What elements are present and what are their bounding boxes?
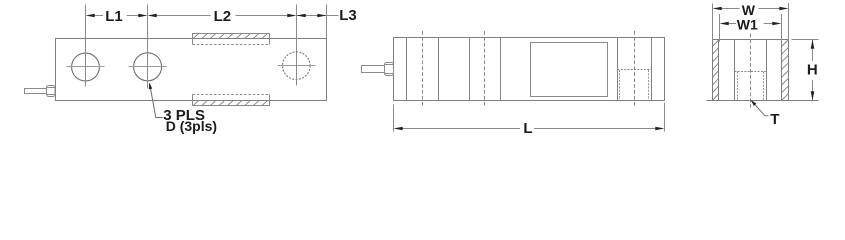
hole 1 circle: [72, 53, 100, 81]
dimension L2: [157, 5, 297, 86]
hole 3 circle (threaded, dashed): [283, 52, 311, 80]
weld plate bottom (hatched): [193, 95, 270, 106]
top view body: [56, 39, 327, 101]
svg-text:L: L: [523, 120, 532, 137]
weld plate bottom hatch lines: [193, 101, 267, 106]
end view right wall inner line: [781, 40, 783, 101]
end view right wall hatch: [782, 40, 789, 101]
ground line: [707, 100, 819, 102]
end view centerline: [750, 34, 752, 108]
svg-text:D (3pls): D (3pls): [166, 118, 217, 134]
svg-text:H: H: [807, 62, 818, 79]
dimension W: [713, 3, 789, 39]
nameplate: [531, 43, 608, 97]
svg-text:L2: L2: [214, 8, 232, 25]
side view machining lines: [407, 38, 652, 101]
dimension L3: [297, 5, 339, 39]
hole 2 centerline horizontal: [129, 66, 167, 68]
svg-text:W1: W1: [737, 16, 758, 32]
svg-text:L3: L3: [339, 7, 357, 24]
leader T: [751, 100, 769, 116]
end view body: [713, 40, 789, 101]
dimension L1: [86, 5, 148, 89]
side view body: [394, 38, 665, 101]
svg-text:T: T: [770, 111, 779, 128]
side view hole centerline 1: [422, 31, 424, 108]
svg-text:L1: L1: [105, 8, 123, 25]
cable gland nut (side view): [385, 63, 394, 76]
hole 3 centerline horizontal: [278, 65, 316, 67]
end view left wall hatch: [713, 40, 719, 100]
pocket hidden lines (side view): [618, 70, 652, 101]
side view hole centerline 3: [634, 31, 636, 108]
end view pocket walls: [735, 40, 767, 101]
hole 1 centerline vertical: [85, 49, 87, 87]
leader 3 PLS: [150, 84, 163, 118]
hole 1 centerline horizontal: [67, 66, 105, 68]
cable gland nut (top view): [47, 86, 56, 97]
end view pocket hidden lines: [735, 72, 767, 101]
weld plate top (hatched): [193, 34, 270, 45]
dimension L: [394, 103, 665, 132]
dimension W1: [720, 14, 782, 42]
side view hole centerline 2: [484, 31, 486, 108]
weld plate top hatch lines: [193, 34, 267, 39]
hole 2 circle: [134, 53, 162, 81]
end view left wall inner line: [718, 40, 720, 101]
cable tube (side view): [362, 66, 385, 73]
dimension H: [792, 40, 819, 101]
cable tube (top view): [25, 89, 47, 94]
